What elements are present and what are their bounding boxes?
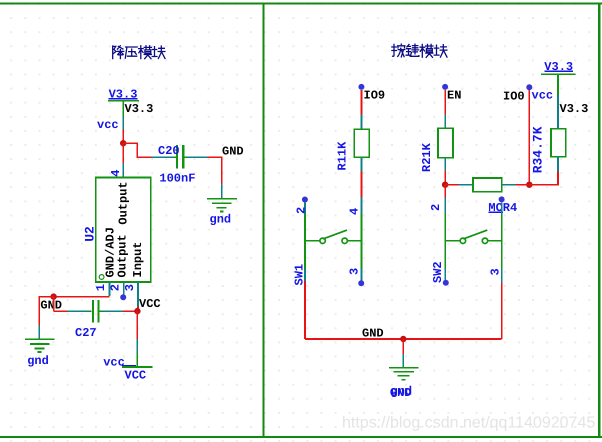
junction dot VCC [134,308,140,314]
gnd stub teal [221,184,223,198]
wire GND down to C27 red [53,297,55,312]
capacitor C20 right pin teal [188,156,208,158]
wire R2 to junction red [444,171,446,185]
SW2 pin2 stub teal [444,198,446,215]
capacitor C20 left plate [176,145,178,168]
svg-text:Input: Input [131,241,145,277]
wire IO9 red [361,90,363,115]
svg-text:3: 3 [488,268,502,275]
pin 1 polarity bubble [99,275,104,280]
svg-text:gnd: gnd [210,212,232,226]
SW2 pin1 dangling dot [443,280,449,286]
net label V3.3 underline [109,98,138,100]
power port V3.3 (left) bar [108,100,139,102]
SW1 contact circle left [320,238,325,243]
svg-text:2: 2 [294,207,308,214]
net label V3.3 right underline [544,70,573,72]
svg-text:IO9: IO9 [364,88,386,102]
SW1 actuator bar [323,230,347,239]
svg-text:Output: Output [117,181,131,224]
ground symbol (left) [25,339,54,352]
resistor R1 bottom pin teal [361,157,363,171]
gnd stub red [402,339,404,354]
svg-text:R34.7K: R34.7K [530,126,545,173]
power port V3.3 (right) pin green [557,74,559,95]
svg-text:2: 2 [429,204,443,211]
wire V3.3 down red [122,129,124,143]
power port VCC pin green [136,353,138,367]
switch SW2 left body [444,214,446,268]
svg-text:vcc: vcc [103,355,125,369]
wire VCC down teal [136,339,138,353]
power port V3.3 (left) pin [122,101,124,117]
junction dot right (MCR4) [526,182,532,188]
svg-text:gnd: gnd [391,385,413,399]
capacitor C27 right plate [97,300,99,323]
wire VCC down red [136,311,138,339]
junction dot GND rail [400,336,406,342]
junction dot GND [50,293,56,299]
svg-text:V3.3: V3.3 [125,102,154,116]
node EN dangling dot [442,84,448,90]
resistor MCR4 right red [516,184,529,186]
wire V3.3 down teal [557,95,559,129]
wire IO0 down red [528,90,530,181]
resistor R1 top pin teal [361,115,363,130]
capacitor C20 right plate [182,145,184,168]
SW1 contact circle right [342,238,347,243]
svg-text:VCC: VCC [139,297,161,311]
SW2 right lower stub teal [501,268,503,283]
sheet border right [598,2,600,436]
resistor R2 top pin teal [444,115,446,129]
resistor R3 bottom pin teal [557,157,559,172]
SW1 pin2 stub teal [304,202,306,214]
resistor MCR4 body [473,178,502,192]
junction dot vcc [120,140,126,146]
node IO0 dangling dot [526,84,532,90]
svg-text:IO0: IO0 [503,89,525,103]
SW2 actuator bar [463,230,487,239]
svg-text:3: 3 [123,284,137,291]
svg-text:4: 4 [347,208,361,215]
wire pin1 to GND red [54,296,110,298]
GND rail red [305,338,502,340]
SW2 left lower stub teal [444,268,446,280]
SW2 pin4 dangling dot [499,196,505,202]
wire R1 to SW1 red [361,172,363,198]
wire junction to pin4 red [122,143,124,163]
ground symbol (rail) [389,368,418,380]
switch SW1 left body [304,214,306,269]
wire GND left red [39,297,53,326]
svg-text:SW1: SW1 [292,264,306,286]
SW1 pin4 stub teal [361,197,363,214]
SW1 right lower stub teal [361,269,363,281]
svg-text:1: 1 [94,284,108,291]
svg-text:C20: C20 [158,144,180,158]
resistor R2 body [438,128,453,158]
SW1 pin3 dangling dot [358,280,364,286]
resistor R1 body [354,129,369,157]
resistor R2 bottom pin teal [444,158,446,171]
wire to gnd red [208,157,222,184]
SW2 contact circle right [482,238,487,243]
switch SW2 right body [501,214,503,268]
label MCR4 underline [488,211,503,213]
pin 3 to VCC red [137,307,139,312]
pin 4 stub teal [122,163,124,178]
gnd stub teal [402,354,404,367]
wire R3 to junction red [529,172,558,185]
SW2 contact right [488,240,502,242]
resistor MCR4 right pin teal [502,184,516,186]
SW2 contact left [445,240,460,242]
capacitor C27 right pin green stub [100,310,104,312]
svg-text:Output: Output [116,234,130,277]
switch SW1 pin2 dangling dot [302,197,308,203]
svg-text:C27: C27 [75,326,97,340]
svg-text:vcc: vcc [532,88,554,102]
svg-text:V3.3: V3.3 [109,88,138,102]
title 降压模块 [113,46,165,59]
svg-text:GND: GND [222,145,244,159]
capacitor C27 left pin green stub [88,310,91,312]
resistor MCR4 left red [445,184,459,186]
capacitor C27 left pin teal [67,310,88,312]
SW2 right upper stub teal [501,202,503,214]
svg-text:gnd: gnd [27,354,49,368]
resistor R3 body [551,129,566,157]
wire junction right red [123,143,151,157]
svg-text:R21K: R21K [420,142,434,172]
svg-text:GND: GND [362,326,384,340]
capacitor C20 left pin green stub [173,156,176,158]
wire EN red [444,90,446,115]
svg-text:2: 2 [108,284,122,291]
wire SW1 to GND rail red [304,281,306,339]
svg-text:U2: U2 [83,226,98,242]
power port VCC bar [122,366,152,368]
capacitor C27 right pin teal [103,310,123,312]
wire junction down red [444,185,446,198]
power port V3.3 (right) bar [541,73,576,75]
svg-text:SW2: SW2 [431,261,445,283]
net label vcc underline [122,364,136,366]
SW1 contact right [347,240,361,242]
svg-text:R11K: R11K [335,141,349,171]
svg-text:vcc: vcc [97,118,119,132]
capacitor C20 right pin green stub [184,156,187,158]
SW1 contact left [305,240,320,242]
svg-text:4: 4 [109,170,123,177]
wire SW2 to GND rail red [501,283,503,339]
ground symbol (C20) [207,199,237,212]
svg-text:EN: EN [447,88,461,102]
svg-text:3: 3 [347,268,361,275]
svg-text:V3.3: V3.3 [560,102,589,116]
wire to C27 red [54,310,68,312]
svg-text:VCC: VCC [125,369,147,383]
pin 3 stub teal [137,282,139,307]
capacitor C20 left pin teal [152,156,174,158]
wire C27 to VCC red [123,310,137,312]
gnd stub teal (left) [38,326,40,339]
pin 2 stub teal [123,282,125,294]
switch SW1 right body [361,214,363,269]
resistor MCR4 left pin teal [459,184,473,186]
capacitor C27 left plate [92,300,94,323]
junction dot left (MCR4) [442,182,448,188]
pin 1 stub teal [109,282,111,296]
sheet border divider [262,2,264,436]
title 按键模块 [392,44,447,57]
sheet border bottom [0,436,602,438]
node IO9 dangling dot [358,84,364,90]
SW2 contact circle left [460,238,465,243]
svg-text:100nF: 100nF [159,172,195,186]
SW1 left lower stub teal [304,269,306,282]
pin 2 dangling dot blue [120,294,126,300]
regulator U2 body [96,178,151,283]
wire V3.3 down teal [122,116,124,129]
svg-text:https://blog.csdn.net/qq114092: https://blog.csdn.net/qq1140920745 [342,415,595,432]
sheet border top [0,2,602,4]
